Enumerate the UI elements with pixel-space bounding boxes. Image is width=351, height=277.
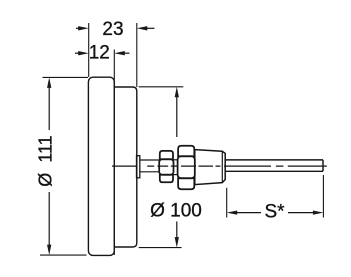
extension line dim 23 right bbox=[136, 23, 138, 87]
dim 12 arrows bbox=[78, 51, 125, 55]
hex nut large: bottom band bbox=[178, 178, 194, 189]
hex nut large: top band bbox=[178, 146, 194, 156]
hex nut small: bottom band bbox=[160, 175, 173, 183]
svg-text:23: 23 bbox=[102, 19, 123, 40]
case front (bezel, side view) bbox=[88, 77, 114, 255]
dim 23 arrows bbox=[78, 26, 147, 30]
dim S* extension right bbox=[322, 175, 324, 218]
hex nut small: middle band bbox=[159, 159, 173, 174]
stem end cap bbox=[322, 160, 324, 171]
extension line dim 12 right / case front edge bbox=[113, 50, 115, 256]
neck flange bbox=[137, 156, 140, 178]
svg-text:Ø 100: Ø 100 bbox=[150, 201, 202, 222]
svg-text:12: 12 bbox=[89, 43, 110, 64]
dim O111 arrows bbox=[47, 77, 51, 255]
svg-text:Ø 111: Ø 111 bbox=[36, 135, 56, 186]
dim O100 extension bottom bbox=[139, 247, 182, 249]
dim O100 line upper segment bbox=[176, 96, 178, 138]
extension line dim 23 left / case edge top bbox=[88, 23, 90, 77]
svg-text:S*: S* bbox=[264, 201, 285, 222]
neck tube bbox=[140, 159, 160, 161]
hex nut large: middle band bbox=[178, 156, 195, 178]
dim O111 line lower segment bbox=[48, 192, 50, 247]
dim O100 line lower segment bbox=[176, 222, 178, 240]
threaded plug (tapered) bbox=[195, 150, 225, 185]
dim O111 extension top bbox=[43, 76, 89, 78]
dim O100 arrows bbox=[175, 87, 179, 248]
centerline axis bbox=[112, 165, 327, 167]
case back (stem housing, side view) bbox=[114, 87, 137, 247]
hex nut small: top band bbox=[160, 151, 173, 159]
collar lines between nuts bbox=[174, 159, 178, 161]
dim S* line segments bbox=[236, 212, 261, 214]
dim O100 extension top bbox=[139, 86, 184, 88]
stem probe tube bbox=[225, 159, 323, 161]
dim O111 extension bottom bbox=[40, 254, 87, 256]
dim S* extension left bbox=[226, 188, 228, 218]
dim S* arrows bbox=[227, 210, 324, 214]
thread end line bbox=[221, 151, 223, 182]
dim O111 line upper segment bbox=[48, 86, 50, 130]
